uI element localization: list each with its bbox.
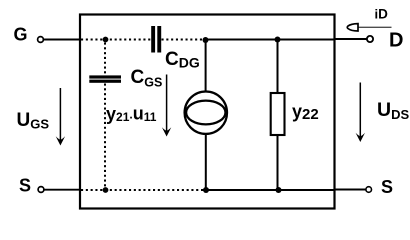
terminal S right	[366, 187, 372, 193]
wire box edge to terminal D	[335, 38, 367, 40]
wire S terminal to box	[44, 189, 80, 191]
wire G terminal to box	[44, 39, 80, 41]
svg-text:iD: iD	[375, 7, 389, 22]
node junction current source bottom	[203, 187, 209, 193]
capacitor C_GS	[89, 75, 121, 82]
wire top rail dotted (gate node, box edge to C_DG)	[81, 39, 151, 41]
wire y22 top	[277, 42, 279, 94]
wire bottom rail solid (current source foot to box edge)	[203, 189, 335, 191]
wire dotted gate vertical below C_GS	[104, 84, 106, 189]
capacitor C_DG	[151, 26, 161, 53]
enclosure box of FET equivalent circuit	[80, 15, 335, 209]
wire dotted gate vertical above C_GS	[104, 43, 106, 76]
svg-text:S: S	[19, 176, 31, 196]
current direction arrow of controlled source	[162, 75, 171, 137]
svg-text:D: D	[389, 29, 403, 51]
wire top rail solid (drain node to box edge)	[206, 39, 335, 41]
node junction y22 top	[275, 37, 281, 43]
voltage arrow U_DS	[356, 83, 365, 143]
svg-text:S: S	[381, 177, 393, 197]
wire current source bottom	[205, 134, 207, 191]
node junction drain top at current source	[203, 37, 209, 43]
node junction gate / C_GS tap	[103, 37, 109, 43]
wire current source top	[205, 42, 207, 92]
wire bottom rail dotted (box edge to current source foot)	[81, 189, 203, 191]
wire top rail dotted (C_DG to drain node)	[162, 39, 204, 41]
node junction y22 bottom	[276, 187, 282, 193]
node junction source left (C_GS foot)	[103, 187, 109, 193]
resistor y22 (admittance box)	[271, 93, 285, 135]
terminal D	[367, 36, 373, 42]
wire y22 bottom	[277, 135, 279, 190]
current source y21.u11 (double-circle symbol)	[185, 92, 227, 134]
voltage arrow U_GS	[56, 88, 65, 146]
current arrow iD (open arrowhead pointing left)	[347, 24, 391, 31]
terminal S left	[38, 187, 44, 193]
terminal G	[38, 37, 44, 43]
wire box edge to terminal S right	[335, 189, 366, 191]
svg-text:G: G	[14, 25, 28, 45]
